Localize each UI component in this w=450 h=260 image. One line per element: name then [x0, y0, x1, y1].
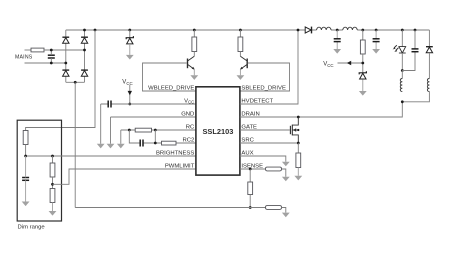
diode bridge top-left — [62, 37, 69, 43]
node RC left — [128, 129, 131, 132]
ground dim R3 — [49, 211, 57, 216]
diode freewheel — [426, 47, 433, 53]
ground source sense — [294, 176, 302, 181]
node mains cap top — [50, 49, 53, 52]
ground cap2 — [372, 49, 380, 54]
ground ISENSE filter — [282, 177, 290, 182]
supply Vcc arrow left — [129, 85, 131, 104]
svg-text:RC: RC — [186, 124, 195, 130]
svg-text:VCC: VCC — [323, 62, 333, 68]
node RC2 tie — [154, 142, 157, 145]
node rail bleed resistor right — [239, 29, 242, 32]
wire DRAIN line — [240, 102, 402, 117]
ground below zener — [126, 55, 134, 60]
resistor dim middle — [50, 163, 55, 177]
wire HVDETECT to rail — [240, 30, 298, 104]
wire sense resistor to ground — [297, 168, 299, 176]
IC U1 SSL2103 — [196, 87, 240, 175]
node HVDETECT rail — [297, 29, 300, 32]
wire shunt to bottom rail — [249, 195, 251, 208]
node bridge top right on rail — [83, 29, 86, 32]
wire SBLEED_DRIVE loop — [240, 63, 290, 91]
diode bridge bottom-left — [62, 70, 69, 76]
wire output cap stub — [402, 30, 415, 71]
wire rail corner to freewheel diode — [428, 30, 430, 47]
capacitor dim — [22, 178, 29, 181]
wire ISENSE line — [240, 169, 286, 177]
svg-text:DRAIN: DRAIN — [241, 111, 259, 117]
node Vcc right — [361, 62, 364, 65]
wire mains top to bridge — [44, 49, 85, 51]
node rail cap2 — [375, 29, 378, 32]
transistor Q1 power MOSFET — [290, 117, 298, 143]
node rail zener column — [128, 29, 131, 32]
wire dim node1 — [25, 145, 27, 157]
wire rail to zener — [129, 30, 131, 38]
ground left bleed emitter — [190, 75, 198, 80]
wire GND pin line — [111, 116, 196, 118]
ground Vcc cap — [97, 144, 105, 149]
resistor shunt vertical — [248, 182, 253, 195]
wire coil right bottom — [402, 92, 429, 102]
node rail LED column — [401, 29, 404, 32]
resistor dim bottom — [50, 189, 55, 203]
dim range box — [17, 120, 61, 221]
wire ISENSE to shunt — [249, 169, 251, 182]
node rail cap1 — [336, 29, 339, 32]
svg-text:WBLEED_DRIVE: WBLEED_DRIVE — [148, 85, 194, 91]
wire mains line bottom — [25, 62, 66, 64]
node dim node1 left — [24, 155, 27, 158]
resistor fuse in mains line — [31, 48, 44, 52]
resistor RC timing — [135, 128, 151, 132]
resistor ISENSE filter — [266, 167, 282, 171]
wire rail to left bleed resistor — [193, 30, 195, 37]
wire WBLEED_DRIVE loop — [143, 63, 196, 91]
node rail Vcc resistor — [361, 29, 364, 32]
wire zener clamp to ground — [362, 79, 364, 91]
wire dim R3 to ground — [52, 203, 54, 212]
wire rail to dim-range box — [26, 30, 95, 131]
wire rail to right bleed resistor — [239, 30, 241, 37]
node Vcc wire — [128, 103, 131, 106]
wire LED to node — [401, 53, 403, 71]
wire rail to Vcc resistor — [362, 30, 364, 40]
wire Vcc cap to ground — [100, 104, 102, 144]
capacitor filter 2 — [373, 39, 380, 42]
resistor RC2 — [162, 141, 177, 145]
wire GND drop — [110, 117, 112, 144]
svg-text:PWMLIMIT: PWMLIMIT — [165, 163, 195, 169]
node ISENSE — [249, 168, 252, 171]
svg-text:GATE: GATE — [241, 124, 257, 130]
wire bottom sense to ground — [282, 208, 286, 213]
wire mains line top — [25, 49, 32, 51]
svg-text:SRC: SRC — [241, 137, 254, 143]
node rail bleed resistor left — [193, 29, 196, 32]
wire RC pin line — [121, 129, 196, 131]
node rail dim-range riser — [94, 29, 97, 32]
wire freewheel to coil right — [428, 53, 430, 78]
wire BRIGHTNESS line — [26, 155, 196, 157]
node mosfet source-body — [297, 129, 299, 131]
ground RC — [117, 144, 125, 149]
wire left bleed resistor to transistor — [193, 52, 195, 57]
wire GATE line — [240, 129, 290, 131]
svg-text:MAINS: MAINS — [15, 55, 33, 61]
resistor bleed right — [238, 37, 243, 52]
transistor bleed right NPN mirrored — [240, 56, 247, 69]
wire left emitter down — [193, 69, 195, 75]
wire cap1 stub — [336, 30, 338, 49]
wire bridge minus bar — [66, 81, 85, 83]
capacitor RC2 timing — [140, 140, 143, 147]
wire dim cap stubs — [25, 156, 27, 202]
svg-text:Dim range: Dim range — [18, 225, 46, 231]
wire top rail left of series diode — [66, 29, 305, 31]
wire cap stub mains — [50, 50, 52, 55]
wire SRC line — [240, 142, 298, 144]
node bridge right AC input — [83, 49, 86, 52]
node coil bottom — [401, 100, 404, 103]
svg-text:VCC: VCC — [122, 80, 132, 86]
svg-text:RC2: RC2 — [183, 137, 195, 143]
wire cap2 stub — [375, 30, 377, 49]
wire top rail right of series diode — [312, 29, 430, 31]
ground AUX — [282, 162, 290, 167]
wire RC-RC2 tie — [154, 130, 156, 143]
transistor bleed left NPN — [188, 56, 195, 69]
wire Vcc pin line — [101, 103, 196, 105]
svg-text:GND: GND — [181, 111, 194, 117]
svg-text:VCC: VCC — [184, 98, 194, 104]
inductor winding right — [427, 79, 429, 92]
resistor bleed left — [192, 37, 197, 52]
wire RC2 pin line — [129, 130, 196, 143]
ground bottom rail — [282, 213, 290, 218]
supply Vcc arrow right — [338, 62, 363, 64]
wire dim R2 stub — [52, 156, 54, 163]
node mains cap bottom — [50, 62, 53, 65]
svg-text:HVDETECT: HVDETECT — [241, 98, 273, 104]
ground dim cap — [22, 202, 30, 207]
node bottom rail shunt — [249, 206, 252, 209]
wire AUX line — [240, 156, 286, 162]
node bridge minus — [74, 81, 77, 84]
wire SRC to sense resistor — [297, 143, 299, 153]
resistor Vcc supply — [360, 40, 365, 54]
ground cap1 — [333, 49, 341, 54]
node dim node1 right — [51, 155, 54, 158]
wire PWMLIMIT line — [53, 169, 196, 184]
wire RC to ground — [120, 130, 122, 144]
inductor filter 2 — [343, 27, 357, 30]
inductor winding left — [400, 79, 402, 92]
wire zener to ground — [129, 44, 131, 55]
zener diode Vcc clamp — [359, 71, 366, 79]
wire dim node2 — [52, 177, 54, 189]
wire bottom rail — [75, 207, 265, 209]
diode series rail — [305, 27, 311, 34]
wire bridge right column — [84, 30, 86, 82]
inductor filter 1 — [317, 27, 331, 30]
node SRC — [297, 142, 300, 145]
wire bridge minus down to bottom rail — [74, 82, 76, 207]
wire rail to LED — [401, 30, 403, 47]
node RC right — [154, 129, 157, 132]
node rail output cap — [414, 29, 417, 32]
resistor dim top — [23, 131, 28, 145]
node bridge left AC input — [64, 62, 67, 65]
ground zener clamp — [359, 91, 367, 96]
svg-text:SSL2103: SSL2103 — [202, 127, 233, 136]
svg-text:BRIGHTNESS: BRIGHTNESS — [156, 150, 194, 156]
capacitor X across mains — [48, 55, 55, 58]
zener diode mains sense — [126, 36, 133, 44]
capacitor Vcc decoupling — [108, 101, 111, 108]
capacitor filter 1 — [334, 39, 341, 42]
ground GND pin — [107, 144, 115, 149]
wire right bleed resistor to transistor — [239, 52, 241, 57]
svg-text:AUX: AUX — [241, 150, 253, 156]
wire right emitter down — [239, 69, 241, 75]
node dim node2 — [51, 183, 54, 186]
svg-text:SBLEED_DRIVE: SBLEED_DRIVE — [241, 85, 286, 91]
wire bridge left column — [65, 30, 67, 82]
node DRAIN mosfet — [297, 116, 300, 119]
diode bridge bottom-right — [81, 70, 88, 76]
LED load — [393, 45, 406, 53]
diode bridge top-right — [81, 37, 88, 43]
ground right bleed emitter — [237, 75, 245, 80]
capacitor output — [412, 49, 419, 52]
resistor bottom rail sense — [266, 206, 282, 210]
resistor source sense — [296, 153, 301, 168]
wire LED node to coil left — [401, 71, 403, 79]
wire Vcc resistor to node — [362, 54, 364, 73]
svg-text:ISENSE: ISENSE — [241, 163, 263, 169]
node LED bottom — [401, 69, 404, 72]
